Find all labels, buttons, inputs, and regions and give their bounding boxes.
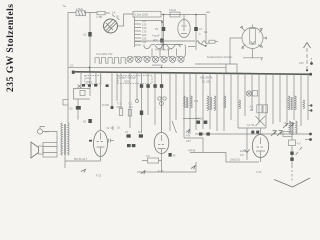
voltage selector ladder: [134, 17, 136, 47]
svg-text:350V: 350V: [124, 79, 130, 83]
right dashed branch: [291, 137, 293, 181]
blobs mid: [197, 121, 201, 124]
grid cap tube V1: [109, 139, 114, 143]
svg-text:0,1: 0,1: [117, 126, 121, 130]
svg-text:4,7: 4,7: [297, 142, 301, 146]
feedback loop resistor: [74, 89, 91, 100]
svg-text:47k: 47k: [194, 99, 199, 103]
capacitor blob: [140, 111, 143, 116]
tube V5 magic eye: [242, 28, 263, 49]
svg-text:5+5μF 4+16μF: 5+5μF 4+16μF: [119, 76, 137, 80]
output transformer: [61, 123, 63, 155]
wire eye bottom: [252, 49, 254, 58]
wire link y118: [183, 118, 200, 120]
capacitor 50a: [76, 106, 81, 110]
wire left vertical: [67, 13, 69, 68]
wire heater top: [135, 40, 195, 42]
svg-text:47 90: 47 90: [196, 117, 203, 121]
resistor U58: [97, 11, 105, 14]
capacitor blobs tube V3 top: [251, 131, 254, 134]
svg-text:0,1: 0,1: [83, 33, 87, 37]
svg-text:1,5kΩ: 1,5kΩ: [76, 7, 83, 11]
heater chain end: [184, 45, 186, 58]
wire eye left: [230, 38, 242, 64]
wire line B: [195, 64, 237, 73]
IF transformer TA: [184, 96, 186, 108]
svg-text:250V: 250V: [86, 80, 92, 84]
svg-text:150: 150: [142, 26, 147, 30]
antenna arrow dashed: [306, 48, 308, 70]
electrolytic blobs under bus: [82, 84, 85, 87]
resistor vertical pair: [119, 109, 122, 116]
svg-text:b 1kΩ: b 1kΩ: [169, 8, 176, 12]
capacitor block dashed box: [85, 76, 101, 85]
electrolytic block dashed box: [118, 75, 152, 83]
svg-text:0,1 50: 0,1 50: [247, 123, 255, 127]
filter lamp: [246, 91, 251, 96]
svg-text:235 GW Stolzenfels: 235 GW Stolzenfels: [5, 4, 16, 92]
svg-text:4kV: 4kV: [129, 105, 134, 109]
svg-text:110: 110: [142, 19, 147, 23]
loudspeaker feed: [37, 129, 42, 134]
output terminals: [309, 133, 312, 136]
svg-text:47k: 47k: [186, 134, 191, 138]
svg-text:4Sk 5W 7k: 4Sk 5W 7k: [200, 76, 213, 80]
wire stub x81: [80, 72, 82, 89]
output line to speaker terminals: [195, 133, 311, 135]
svg-text:0,5: 0,5: [250, 105, 254, 109]
resistor box small: [209, 40, 215, 43]
main bus chassis: [75, 72, 311, 75]
capacitor C01: [195, 15, 197, 51]
wire heater mid: [156, 44, 183, 46]
resistor small box: [63, 100, 68, 106]
anode row line: [238, 127, 266, 129]
wire top-left mains: [68, 12, 110, 15]
selector right wire: [141, 21, 162, 51]
capacitor at bus start: [72, 71, 75, 74]
capacitor C sel: [160, 39, 164, 43]
resistor under tube V2: [148, 158, 159, 163]
tube V2 E43: [154, 133, 169, 154]
svg-text:0,5: 0,5: [240, 153, 244, 157]
svg-text:C 43: C 43: [256, 170, 262, 174]
capacitor beside: [169, 153, 172, 157]
svg-text:4JF40: 4JF40: [188, 149, 196, 153]
resistor wavy dropper: [144, 44, 180, 49]
wire stub corner: [63, 5, 66, 8]
wire mid vertical with fuse: [89, 13, 91, 97]
svg-text:0,1: 0,1: [129, 102, 133, 106]
wire top AF supply: [161, 14, 206, 16]
switch S1: [188, 15, 206, 47]
svg-text:0,1 25k: 0,1 25k: [202, 80, 211, 84]
IF transformer T1: [207, 96, 209, 110]
wire lamp to selector: [118, 14, 134, 26]
heater chain tube heaters: [127, 56, 184, 62]
svg-text:5Kt 50 od.7: 5Kt 50 od.7: [74, 157, 88, 161]
coil small right: [239, 100, 241, 109]
diagonal wire: [172, 121, 177, 133]
svg-text:St 4M: St 4M: [102, 103, 109, 107]
tube V4 small: [178, 20, 190, 38]
svg-text:1A: 1A: [112, 11, 115, 15]
svg-text:1MΩ 0,5: 1MΩ 0,5: [230, 158, 240, 162]
stub dashes right: [206, 11, 210, 13]
grid cap circle: [160, 102, 164, 106]
svg-text:4m/C-Uhr 1F 7: 4m/C-Uhr 1F 7: [155, 48, 173, 52]
crossing wires: [256, 116, 266, 126]
potentiometer mid: [246, 128, 248, 160]
junction circle small: [136, 100, 139, 103]
svg-text:F 13: F 13: [96, 174, 102, 178]
svg-text:4×U-Röhr.75V: 4×U-Röhr.75V: [96, 52, 113, 56]
svg-text:1M: 1M: [250, 108, 254, 112]
wire bottom long: [137, 162, 196, 172]
component row mid-left: [110, 106, 113, 109]
svg-text:77,5: 77,5: [117, 102, 123, 106]
diagonal dashes: [296, 147, 303, 155]
wire AF coupling: [184, 138, 203, 153]
svg-text:0,1: 0,1: [70, 63, 74, 67]
tube V3 C43: [252, 135, 268, 158]
svg-text:24V: 24V: [299, 61, 304, 65]
tube V5 pin arrows: [240, 26, 267, 48]
coil right: [303, 100, 305, 109]
loudspeaker: [31, 142, 39, 158]
resistor 1k: [170, 12, 180, 17]
tube V1 output F13: [94, 131, 108, 157]
ground chevron: [274, 178, 310, 187]
svg-text:220: 220: [142, 37, 147, 41]
resistor R ballast: [76, 11, 86, 16]
svg-text:AF7: AF7: [186, 139, 191, 143]
svg-text:240: 240: [142, 40, 147, 44]
speaker arrows: [271, 131, 282, 137]
svg-text:4 gr.W: 4 gr.W: [152, 34, 160, 38]
svg-text:0,3: 0,3: [146, 154, 150, 158]
wire line A: [68, 66, 226, 68]
svg-text:Tonabnehmer üb.Sch.: Tonabnehmer üb.Sch.: [207, 55, 233, 59]
resistor wavy small: [196, 41, 209, 44]
svg-text:200: 200: [142, 33, 147, 37]
svg-text:0,1: 0,1: [199, 27, 203, 31]
IF coil single: [224, 96, 226, 108]
comb of wires below bus: [96, 72, 308, 138]
svg-text:Heizkreis: Heizkreis: [152, 63, 163, 67]
svg-text:0,1: 0,1: [125, 130, 129, 134]
arrows AVC: [283, 123, 288, 128]
IF transformer T2: [288, 96, 290, 110]
svg-text:U.Sch.220V: U.Sch.220V: [134, 12, 148, 16]
terminals right mid: [310, 104, 312, 106]
lamp L1 dial: [104, 19, 118, 33]
IF transformer T3 lower: [289, 121, 291, 134]
svg-text:400: 400: [153, 38, 158, 42]
heater chain links: [133, 57, 180, 58]
voltage selector label box: [133, 11, 161, 17]
component row above tube V2: [107, 126, 114, 130]
resistor box pair: [257, 105, 262, 113]
svg-text:4,1: 4,1: [204, 30, 208, 34]
left vertical to output stage: [67, 67, 69, 123]
svg-text:U 58: U 58: [97, 15, 103, 19]
svg-text:170: 170: [142, 30, 147, 34]
capacitor C25: [163, 15, 165, 51]
svg-text:0,1μ: 0,1μ: [86, 76, 92, 80]
capacitor 50b: [88, 119, 91, 123]
svg-text:125: 125: [142, 23, 147, 27]
fuse F1: [88, 32, 91, 37]
svg-text:E 43: E 43: [158, 169, 164, 173]
circle pair grid caps: [158, 97, 161, 100]
